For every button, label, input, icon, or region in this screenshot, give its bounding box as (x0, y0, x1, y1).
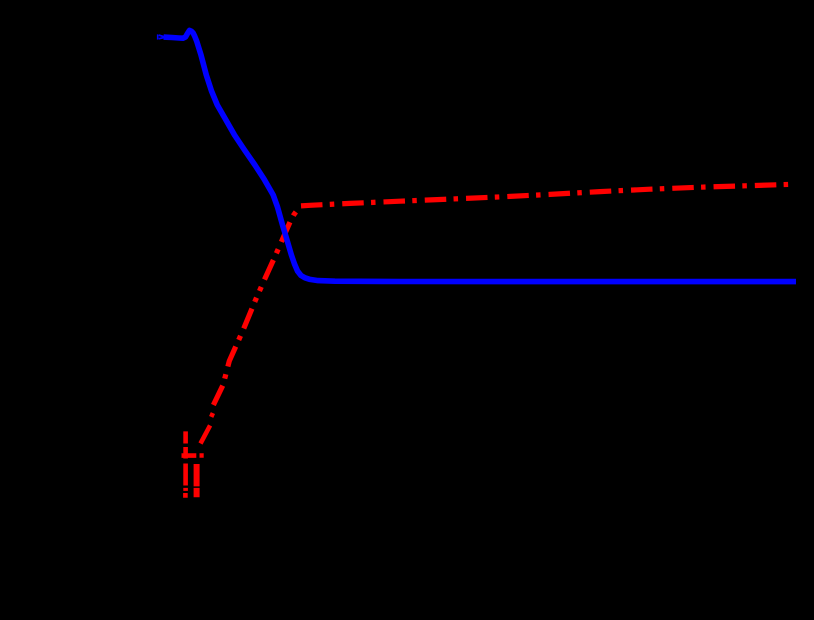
blue start tick (157, 34, 159, 39)
red tangle: left vertical spike at x=185.5 (183, 431, 188, 497)
red dash-dot curve: steep rising part (lower) (213, 301, 255, 405)
red dash-dot curve: steep rising part (upper, into bend) (255, 207, 301, 301)
red tangle: horizontal bulge at y=455.5 (182, 453, 204, 458)
blue start split strands (159, 35, 164, 39)
blue solid curve (164, 30, 796, 281)
red tangle: right vertical at x=196.6 (194, 464, 200, 497)
red explicit dot near (212,415) (211, 413, 213, 417)
red explicit lower diagonal dash (201, 425, 211, 443)
red dash-dot curve: long gentle part (301, 184, 789, 206)
